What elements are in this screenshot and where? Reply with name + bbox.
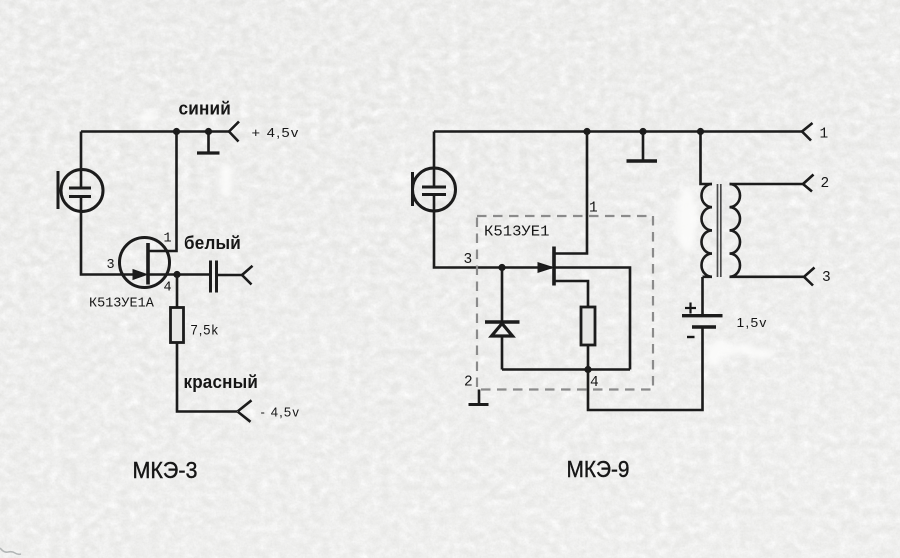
svg-text:красный: красный <box>184 372 259 392</box>
svg-text:МКЭ-9: МКЭ-9 <box>567 456 630 482</box>
svg-text:1: 1 <box>589 201 598 217</box>
wire: mic top lead <box>80 132 83 188</box>
node: gate junction <box>498 264 505 271</box>
wire: resistor to bottom corner <box>177 343 237 412</box>
diode D1: top lead <box>501 268 504 322</box>
ground: below dashed box <box>469 390 489 405</box>
node: rail junction transformer <box>697 128 704 135</box>
capacitor C1 plates <box>211 261 217 293</box>
wire: transformer primary top lead <box>701 132 713 185</box>
diode D1 cathode bar <box>485 320 520 323</box>
transistor U1 circle <box>120 238 170 288</box>
battery B1 short plate <box>692 325 716 328</box>
transistor U1 gate arrow <box>133 270 147 280</box>
node: rail junction pin1 <box>583 128 590 135</box>
wire: source through to output node <box>148 273 210 276</box>
transistor U2 channel bar <box>552 247 556 286</box>
transformer T1 core <box>718 184 721 277</box>
wire: secondary bottom lead to terminal 3 <box>730 275 805 278</box>
wire: secondary top lead to terminal 2 <box>730 183 804 186</box>
wire: top supply rail right <box>434 130 802 133</box>
label: battery plus <box>685 303 696 314</box>
svg-text:3: 3 <box>107 258 115 273</box>
node: junction pin 4 <box>584 366 591 373</box>
white correction smudges <box>139 112 773 365</box>
microphone M1 body <box>61 170 103 212</box>
wire: mic top lead <box>433 132 436 187</box>
svg-text:3: 3 <box>822 270 831 286</box>
microphone M2 body <box>413 168 456 211</box>
wire: battery to transformer <box>701 277 704 316</box>
wire: mic bottom lead to gate <box>81 197 134 275</box>
svg-text:1: 1 <box>820 127 829 143</box>
svg-text:синий: синий <box>179 99 232 119</box>
resistor R1 7,5k body <box>171 308 184 343</box>
wire: node 4 down to resistor <box>176 275 179 308</box>
node: rail junction ground <box>639 128 646 135</box>
diode D1: bottom lead <box>501 336 504 370</box>
svg-text:2: 2 <box>821 176 830 192</box>
svg-text:1: 1 <box>164 232 172 247</box>
svg-text:1,5v: 1,5v <box>737 316 768 330</box>
wire: capacitor to output fork <box>217 274 243 277</box>
svg-text:белый: белый <box>184 233 241 253</box>
terminal fork -4,5v <box>238 400 252 422</box>
battery B1 long plate <box>682 314 723 317</box>
transistor U2 gate arrow <box>538 263 553 273</box>
transistor U1 channel bar <box>146 243 150 285</box>
resistor R2 body <box>581 307 595 345</box>
transformer T1 secondary winding <box>730 184 741 277</box>
wire: resistor to node 4 <box>587 345 590 370</box>
svg-text:К513УЕ1: К513УЕ1 <box>484 224 550 241</box>
wire: pin 4 down and bottom rail <box>588 328 703 411</box>
wire: mic bottom lead to gate line <box>434 195 552 268</box>
node: rail junction to pin 1 <box>173 128 180 135</box>
svg-text:4: 4 <box>164 281 172 296</box>
svg-text:+ 4,5v: + 4,5v <box>252 126 300 140</box>
wire: drain to rail pin 1 <box>554 132 587 254</box>
ground: left circuit top <box>197 132 220 154</box>
wire: body lead right and down <box>554 268 630 370</box>
microphone M1 plates <box>69 188 91 197</box>
wire: source lead to resistor <box>554 281 588 307</box>
dashed box К513УЕ1 <box>477 216 653 390</box>
svg-text:2: 2 <box>464 375 473 391</box>
svg-text:7,5k: 7,5k <box>191 322 220 338</box>
label: battery minus <box>687 336 695 338</box>
svg-text:4: 4 <box>590 375 599 391</box>
transformer T1 primary winding <box>702 184 713 277</box>
wire: primary bottom lead <box>703 275 713 278</box>
ground: right circuit top <box>627 132 658 162</box>
svg-text:- 4,5v: - 4,5v <box>261 406 301 420</box>
terminal fork output <box>242 266 253 285</box>
svg-text:МКЭ-3: МКЭ-3 <box>133 457 198 483</box>
wire: top supply rail <box>81 130 229 133</box>
svg-text:3: 3 <box>464 252 473 268</box>
diode D1 triangle <box>492 324 513 337</box>
svg-text:К513УЕ1А: К513УЕ1А <box>89 297 155 312</box>
terminal fork +4,5v <box>229 122 239 142</box>
node: rail junction to ground <box>205 128 212 135</box>
wire: inner bottom line <box>502 368 630 371</box>
terminal fork 3 <box>804 268 815 286</box>
node: output junction pin 4 <box>173 271 180 278</box>
terminal fork 1 <box>802 123 813 141</box>
microphone M2 plates <box>422 187 446 195</box>
microphone M1 membrane bar <box>57 171 60 209</box>
terminal fork 2 <box>803 175 814 192</box>
stray pencil mark bottom-left <box>0 548 21 554</box>
microphone M2 membrane bar <box>411 172 414 206</box>
wire: pin 1 drain to rail <box>148 132 177 252</box>
